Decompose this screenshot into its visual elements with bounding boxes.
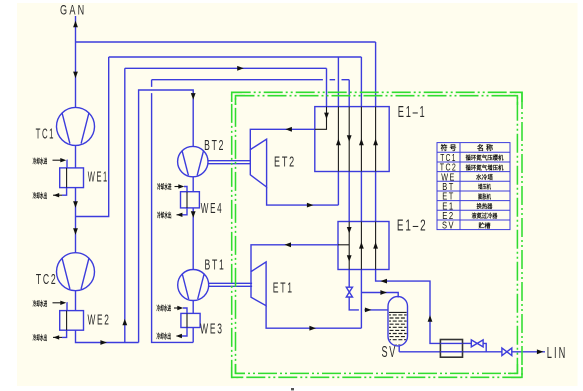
arrow left toward ET2 inlet — [285, 127, 292, 132]
heat exchanger E1-1 box — [315, 107, 389, 172]
cooling water labels — [33, 157, 172, 343]
wire: bus1 top horizontal from main line to L5 — [76, 41, 376, 43]
wire: v2 riser bus3 down to bottom line — [124, 68, 126, 342]
wire: WE4 to BT1 — [192, 208, 194, 270]
arrow right toward SV top inlet — [380, 290, 387, 295]
svg-text:冷却水进: 冷却水进 — [157, 182, 172, 191]
svg-text:WE4: WE4 — [201, 201, 224, 217]
svg-text:冷却水进: 冷却水进 — [33, 157, 48, 166]
wire: LIN line valve V2 to arrow — [512, 351, 545, 353]
wire: v4 riser bottom line up to BT2 feed — [139, 90, 194, 343]
svg-text:循环氮气增压机: 循环氮气增压机 — [466, 164, 504, 172]
arrow up on v2 riser — [122, 319, 127, 326]
cooling water pass inside WE2 — [66, 311, 68, 331]
svg-text:TC1: TC1 — [36, 126, 56, 143]
arrow down into TC1 — [73, 72, 78, 79]
water cooler WE3 box — [181, 313, 200, 327]
arrow up in E1-1 pass L2 — [336, 139, 341, 146]
arrow left toward ET1 inlet — [284, 242, 291, 247]
cooling water elbow WE4 in — [184, 187, 187, 192]
wire: LIN product line from SV bottom to LIN arrow — [399, 351, 502, 353]
cooling water elbow WE1 out — [62, 188, 67, 196]
valve V2 (horizontal bowtie) on LIN line — [502, 348, 507, 356]
svg-text:冷却水进: 冷却水进 — [157, 304, 172, 313]
arrow left cooling out WE2 — [53, 335, 59, 339]
wire: L1 ET2 feed drop from bus3 to E1-1 — [326, 68, 328, 106]
arrow right on ET1 outlet — [309, 326, 316, 331]
wire: L5 between E1-1 and E1-2 — [375, 172, 377, 222]
cooling water inlet line WE3 — [174, 307, 178, 309]
arrow down into TC2 — [73, 228, 78, 235]
shaft BT1-ET1 — [209, 283, 252, 286]
wire: valve V1 to down leg joining LIN line — [483, 343, 486, 351]
cooling water elbow WE1 in — [66, 160, 68, 168]
cooling water pass inside WE1 — [66, 168, 68, 188]
arrow left cooling out WE3 — [176, 334, 182, 338]
E2 internal top pass — [440, 342, 462, 344]
water cooler WE1 box — [60, 168, 84, 188]
wire: E2 top pass to valve V1 — [463, 342, 472, 344]
wire: main line TC1 to WE1 — [75, 145, 77, 168]
svg-text:冷却水进: 冷却水进 — [33, 299, 48, 308]
E1-1 internal pass L2 (black) — [337, 107, 339, 172]
wire: ET1 outlet down and right to L4 lower leg — [266, 306, 361, 329]
svg-text:水冷塔: 水冷塔 — [476, 174, 494, 182]
wire: L4 lower leg E1-2 to ET1 outlet with SV top tee — [360, 270, 362, 329]
cooling water inlet line WE2 — [53, 302, 62, 304]
valve V1 (horizontal bowtie) after E2 top pass — [471, 340, 477, 347]
arrow up in E1-2 pass L5 — [373, 242, 378, 249]
wire: BT2 to WE4 — [192, 177, 194, 192]
compressor TC2 — [57, 253, 95, 291]
wire: L3 between E1-1 and E1-2 — [348, 172, 350, 222]
wire: L4 between E1-1 and E1-2 — [360, 172, 362, 222]
E1-2 internal pass L5 (black) — [375, 222, 377, 270]
svg-text:GAN: GAN — [60, 2, 87, 18]
svg-text:WE1: WE1 — [88, 169, 109, 185]
wire: main line WE1 to TC2 — [75, 188, 77, 253]
svg-text:ET2: ET2 — [274, 154, 296, 171]
wire: main line TC2 to WE2 — [75, 291, 77, 311]
cooling water inlet line WE1 — [53, 159, 62, 161]
wire: L2 below E1-1 down to ET2 outlet corner — [337, 172, 339, 206]
wire: L2 from bus2 down to E1-1 — [337, 57, 339, 107]
green boundary frame inner — [236, 96, 518, 374]
E1-1 internal pass L5 (black) — [375, 107, 377, 172]
arrow down in E1-2 pass L3 upper — [347, 227, 352, 234]
E2 internal bottom pass (LIN) — [440, 351, 462, 353]
arrow right to LIN — [537, 349, 544, 354]
arrow down in E1-1 pass L3 — [347, 135, 352, 142]
arrow right on ET2 outlet — [307, 203, 314, 208]
wire: bus2 horizontal v1 to L4 — [109, 56, 362, 58]
cooling water elbow WE3 out — [182, 328, 187, 337]
wire: BT1 to WE3 — [192, 301, 194, 314]
subcooler E2 box (black) — [440, 340, 462, 358]
wire: L5 from bus1 down to E1-1 — [375, 42, 377, 107]
arrow up on GAN line — [73, 21, 78, 28]
svg-text:BT2: BT2 — [204, 137, 225, 154]
svg-text:名 称: 名 称 — [477, 143, 493, 152]
cooling water pass inside WE3 — [186, 313, 188, 327]
cooling water pass inside WE4 — [186, 192, 188, 208]
shaft BT2-ET2 — [208, 161, 250, 164]
table text — [440, 143, 504, 232]
svg-text:冷却水出: 冷却水出 — [157, 210, 172, 219]
cooling water outlet line WE2 — [53, 336, 62, 338]
black flow arrows — [53, 21, 543, 355]
JT valve (vertical bowtie) below E1-2 — [346, 287, 352, 292]
separator vessel SV shell — [388, 297, 408, 346]
svg-text:WE3: WE3 — [200, 322, 224, 338]
arrow right cooling in WE2 — [60, 301, 66, 305]
E1-2 internal pass L4 (black) — [360, 222, 362, 270]
wire: WE3 outlet down — [192, 328, 194, 343]
wire: bus3 horizontal v2 to L1 — [125, 67, 327, 69]
wire: ET1 inlet horizontal from E1-2 to ET1 — [251, 245, 338, 272]
wire: bus4 horizontal v3 to L3 with crossing gaps — [152, 79, 323, 81]
arrow down into BT1 — [191, 211, 196, 218]
arrow right toward SV side inlet — [365, 308, 372, 313]
cooling water inlet line WE4 — [175, 186, 180, 188]
turbine ET2 — [250, 139, 266, 187]
svg-text:SV: SV — [382, 344, 398, 361]
svg-text:E1–1: E1–1 — [398, 104, 427, 121]
cooling water elbow WE3 in — [183, 308, 187, 313]
green frame corner reinforcements — [232, 92, 522, 377]
arrow right on bottom header — [100, 340, 107, 345]
cooling water outlet line WE1 — [53, 194, 62, 196]
svg-text:E1–2: E1–2 — [397, 217, 428, 234]
svg-text:液氮过冷器: 液氮过冷器 — [472, 212, 499, 220]
wire: v1 riser bus2 down to main junction — [76, 57, 109, 217]
wire: L4 from bus2 down to E1-1 — [360, 57, 362, 107]
arrow down in E1-1 pass L1 — [324, 113, 329, 120]
arrow left cooling out WE1 — [53, 193, 59, 197]
cooling water outlet line WE3 — [177, 335, 183, 337]
arrow left on flash gas header — [380, 279, 387, 284]
wire: main line WE2 down and right to v4 riser — [76, 330, 139, 342]
booster BT1 — [178, 270, 209, 301]
arrow down into BT2 — [191, 93, 196, 100]
wire: ET2 inlet horizontal from E1-1 to ET2 — [250, 129, 314, 149]
arrow right cooling in WE1 — [60, 158, 66, 162]
svg-text:TC2: TC2 — [36, 271, 58, 288]
arrow up in E1-2 pass L4 — [359, 242, 364, 249]
arrow up in E1-1 pass L4 — [359, 139, 364, 146]
wire: SV top feed tee to vessel — [361, 293, 398, 298]
wire: L5 lower leg E1-2 down to flash gas header — [376, 270, 441, 344]
svg-text:WE2: WE2 — [88, 311, 111, 328]
wire: L3 lower leg E1-2 down to JT valve — [348, 270, 350, 288]
wire: v3 riser WE3 outlet up to bus4 — [152, 93, 194, 342]
E1-2 internal pass L3 (black) with ET1 feed tee — [348, 222, 350, 270]
arrow up on flash gas riser — [428, 315, 433, 322]
svg-text:BT1: BT1 — [205, 257, 226, 274]
svg-text:冷却水出: 冷却水出 — [157, 332, 172, 341]
water cooler WE4 box — [181, 192, 200, 208]
svg-text:循环氮气压缨机: 循环氮气压缨机 — [466, 154, 504, 162]
stray mark at bottom edge — [291, 388, 294, 390]
arrow left cooling out WE4 — [176, 213, 182, 217]
svg-text:SV: SV — [442, 221, 455, 232]
wire: SV bottom outlet stub — [398, 346, 400, 352]
svg-text:冷却水出: 冷却水出 — [33, 333, 48, 342]
arrow down in E1-2 pass L3 lower — [347, 255, 352, 262]
svg-text:贮槽: 贮槽 — [478, 222, 491, 230]
wire: L3 from bus4 down to E1-1 — [348, 80, 350, 107]
green boundary frame (cold box), outer — [232, 92, 522, 377]
cooling water elbow WE2 out — [62, 330, 67, 337]
wire: ET2 outlet down and right to L2 — [267, 187, 339, 205]
svg-text:LIN: LIN — [547, 345, 568, 362]
table frame (equipment legend) — [437, 143, 510, 230]
cooling water elbow WE2 in — [66, 303, 68, 311]
E1-1 internal pass L1 (black) with elbow to ET2 feed — [315, 107, 327, 130]
E1-1 internal pass L3 (black) — [348, 107, 350, 172]
compressor TC1 — [57, 107, 95, 145]
svg-text:换热器: 换热器 — [477, 203, 494, 211]
svg-text:冷却水出: 冷却水出 — [33, 191, 48, 200]
svg-text:ET1: ET1 — [273, 280, 294, 297]
cooling water elbow WE4 out — [182, 208, 187, 215]
booster BT2 — [178, 146, 208, 176]
arrow up in E1-1 pass L5 — [373, 139, 378, 146]
cooling water outlet line WE4 — [177, 214, 183, 216]
svg-text:增压机: 增压机 — [478, 183, 491, 191]
svg-text:符 号: 符 号 — [441, 143, 457, 152]
svg-text:膨胀机: 膨胀机 — [477, 193, 491, 201]
arrow right cooling in WE4 — [178, 184, 184, 188]
E1-1 internal pass L4 (black) — [360, 107, 362, 172]
water cooler WE2 box — [60, 311, 84, 331]
arrow down below WE1 — [73, 201, 78, 208]
arrow right on bus3 — [237, 66, 244, 71]
wire: GAN main vertical line — [75, 16, 77, 108]
wire: JT valve outlet down then right to SV side, gap at L4 crossing — [349, 297, 359, 310]
arrow right cooling in WE3 — [177, 306, 183, 310]
liquid level line — [388, 311, 407, 313]
heat exchanger E1-2 box — [338, 222, 389, 270]
turbine ET1 — [251, 262, 266, 306]
